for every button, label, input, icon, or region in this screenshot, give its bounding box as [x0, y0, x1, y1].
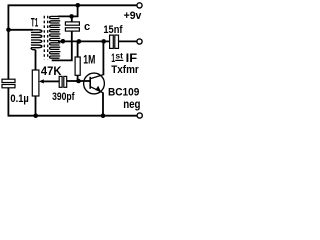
node on top rail: [76, 3, 81, 8]
wire tap rail: [58, 40, 104, 42]
capacitor 390pf plates: [59, 76, 66, 87]
node emitter/neg rail: [101, 113, 106, 118]
resistor 1M body: [75, 57, 80, 75]
transistor collector diagonal: [90, 75, 103, 79]
wire 1M bottom lead: [77, 75, 79, 81]
wire bottom rail (neg): [8, 115, 137, 117]
transformer T1 primary winding: [31, 30, 42, 50]
wire pot bottom to neg rail: [35, 96, 37, 116]
wire wiper to 390pf: [44, 80, 60, 82]
wire collector drop: [102, 41, 104, 75]
svg-text:Txfmr: Txfmr: [111, 64, 139, 76]
wire base lead: [76, 80, 90, 82]
potentiometer 47K body: [32, 70, 39, 96]
wire 390pf to base node: [67, 80, 76, 82]
terminal neg: [137, 113, 142, 118]
svg-text:st: st: [115, 51, 123, 60]
svg-text:T1: T1: [31, 18, 39, 30]
terminal output: [137, 39, 142, 44]
node collector/output: [101, 39, 106, 44]
svg-text:1M: 1M: [83, 54, 95, 66]
svg-text:BC109: BC109: [108, 87, 139, 99]
wire emitter drop: [102, 92, 104, 115]
node C junction: [69, 14, 74, 19]
wire C top lead: [71, 16, 73, 22]
svg-text:c: c: [84, 21, 90, 33]
transformer core: [44, 16, 47, 60]
transistor emitter diagonal: [90, 87, 103, 93]
wire top rail (+9v): [8, 4, 137, 6]
wire primary top lead: [8, 29, 33, 31]
node 1M top: [77, 39, 82, 44]
node A (left rail to T1 primary): [6, 28, 11, 33]
potentiometer 47K wiper arrowhead: [39, 79, 44, 83]
svg-text:0.1µ: 0.1µ: [10, 93, 28, 105]
svg-text:neg: neg: [123, 99, 140, 111]
node tap: [61, 39, 66, 44]
transformer T1 secondary winding: [49, 16, 60, 58]
svg-text:47K: 47K: [41, 66, 62, 78]
svg-text:15nf: 15nf: [103, 24, 122, 36]
capacitor 0.1u plates: [2, 79, 15, 88]
wire left rail upper: [7, 5, 9, 80]
node base junction: [76, 79, 81, 84]
svg-text:+9v: +9v: [124, 10, 143, 22]
terminal +9v: [137, 3, 142, 8]
wire 1M top lead: [77, 41, 79, 57]
wire 15nf to output terminal: [119, 40, 137, 42]
transistor Q1 circle: [84, 73, 105, 94]
svg-text:390pf: 390pf: [52, 91, 75, 103]
transistor base bar: [89, 77, 91, 89]
node pot bottom: [33, 113, 38, 118]
capacitor C plates: [65, 22, 79, 31]
wire primary bottom to pot top: [35, 50, 37, 70]
wire left rail lower: [7, 88, 9, 117]
capacitor 15nf plates: [110, 35, 119, 48]
wire secondary top lead: [58, 5, 78, 16]
transistor emitter arrowhead: [95, 86, 101, 92]
wire collector to 15nf: [104, 40, 110, 42]
wire C bottom lead down to secondary bottom: [52, 31, 72, 60]
